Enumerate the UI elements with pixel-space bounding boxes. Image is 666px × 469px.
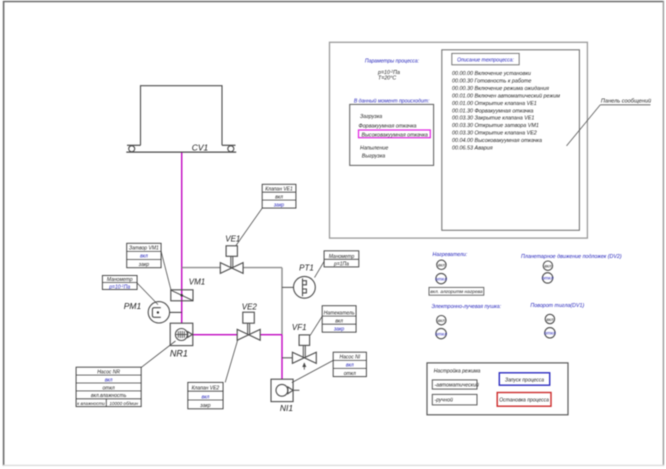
svg-text:Выгрузка: Выгрузка xyxy=(362,154,385,160)
svg-text:вкл: вкл xyxy=(105,377,113,383)
svg-text:Параметры процесса:: Параметры процесса: xyxy=(365,58,420,64)
svg-text:откл: откл xyxy=(544,332,556,337)
svg-text:Остановка процесса: Остановка процесса xyxy=(499,398,549,404)
svg-text:вкл: вкл xyxy=(202,394,210,400)
svg-text:В данный момент происходит:: В данный момент происходит: xyxy=(354,97,430,104)
svg-text:закр: закр xyxy=(199,403,210,409)
svg-text:-автоматический: -автоматический xyxy=(435,382,479,389)
svg-text:VE2: VE2 xyxy=(242,302,258,311)
svg-text:PT1: PT1 xyxy=(299,264,314,273)
svg-text:00.03.30 Открытие затвора VM1: 00.03.30 Открытие затвора VM1 xyxy=(452,123,539,129)
svg-text:00.00.30 Включение режима ожи: 00.00.30 Включение режима ожидания xyxy=(452,86,549,92)
svg-text:закр: закр xyxy=(138,262,149,268)
svg-text:Высоковакуумная откачка: Высоковакуумная откачка xyxy=(362,132,428,138)
svg-text:вкл.влажность: вкл.влажность xyxy=(91,393,127,399)
svg-text:вкл. алгоритм нагрева: вкл. алгоритм нагрева xyxy=(430,290,483,295)
svg-text:Нагреватели:: Нагреватели: xyxy=(433,252,468,258)
svg-text:VM1: VM1 xyxy=(189,278,205,287)
svg-text:откл: откл xyxy=(344,371,356,377)
svg-text:VF1: VF1 xyxy=(292,323,307,332)
svg-text:NI1: NI1 xyxy=(280,403,294,413)
svg-text:Насос NR: Насос NR xyxy=(97,370,120,376)
svg-text:Панель сообщений: Панель сообщений xyxy=(601,98,651,105)
svg-text:Запуск процесса: Запуск процесса xyxy=(505,377,544,383)
svg-text:T=20°C: T=20°C xyxy=(378,76,396,82)
svg-text:Насос NI: Насос NI xyxy=(340,355,361,361)
svg-text:вкл: вкл xyxy=(335,319,343,325)
svg-text:вкл: вкл xyxy=(438,263,446,268)
svg-text:Загрузка: Загрузка xyxy=(360,114,382,120)
svg-text:NR1: NR1 xyxy=(170,349,188,359)
svg-text:Настройка режима: Настройка режима xyxy=(434,368,481,375)
svg-text:Описание техпроцесса:: Описание техпроцесса: xyxy=(457,58,514,64)
svg-text:к влажности: к влажности xyxy=(77,401,105,406)
svg-text:00.03.30 Закрытие клапана VE1: 00.03.30 Закрытие клапана VE1 xyxy=(452,116,534,122)
svg-text:Манометр: Манометр xyxy=(107,277,133,283)
svg-text:p=10-2Па: p=10-2Па xyxy=(108,284,130,290)
svg-text:откл: откл xyxy=(435,332,447,337)
svg-text:вкл: вкл xyxy=(275,195,283,201)
svg-text:10000 об/мин: 10000 об/мин xyxy=(109,401,138,406)
svg-text:Клапан VE1: Клапан VE1 xyxy=(265,187,293,193)
svg-text:Электронно-лучевая пушка:: Электронно-лучевая пушка: xyxy=(432,304,502,310)
svg-text:закр: закр xyxy=(333,327,344,333)
svg-text:00.01.00 Включен автоматическ: 00.01.00 Включен автоматический режим xyxy=(452,92,560,99)
svg-text:00.00.30 Готовность к работе: 00.00.30 Готовность к работе xyxy=(452,79,531,85)
svg-text:Натекатель: Натекатель xyxy=(324,310,355,316)
svg-text:вкл: вкл xyxy=(140,254,148,260)
svg-text:откл: откл xyxy=(435,277,447,282)
svg-text:Напыление: Напыление xyxy=(360,145,388,151)
svg-text:Затвор VM1: Затвор VM1 xyxy=(129,246,159,252)
svg-text:00.03.30 Открытие клапана VE2: 00.03.30 Открытие клапана VE2 xyxy=(452,131,537,137)
svg-text:p=1Па: p=1Па xyxy=(333,262,349,268)
svg-text:-ручной: -ручной xyxy=(435,397,453,404)
svg-text:00.01.30 Форвакуумная откачка: 00.01.30 Форвакуумная откачка xyxy=(452,108,533,114)
svg-text:вкл: вкл xyxy=(346,363,354,369)
svg-text:Форвакуумная откачка: Форвакуумная откачка xyxy=(359,123,417,129)
svg-text:00.01.00 Открытие клапана VE1: 00.01.00 Открытие клапана VE1 xyxy=(452,101,537,107)
svg-text:Поворот тигла(DV1): Поворот тигла(DV1) xyxy=(530,303,584,309)
svg-text:закр: закр xyxy=(273,202,284,208)
svg-text:вкл: вкл xyxy=(546,317,554,322)
svg-text:00.00.00 Включение установки: 00.00.00 Включение установки xyxy=(452,71,531,77)
svg-text:вкл: вкл xyxy=(438,318,446,323)
svg-text:Клапан VE2: Клапан VE2 xyxy=(192,386,220,392)
svg-text:PM1: PM1 xyxy=(124,301,142,311)
svg-text:вкл: вкл xyxy=(544,264,552,269)
svg-text:00.06.53 Авария: 00.06.53 Авария xyxy=(452,146,493,152)
svg-text:откл: откл xyxy=(103,385,115,391)
svg-text:00.04.00 Высоковакуумная отка: 00.04.00 Высоковакуумная откачка xyxy=(452,138,542,144)
svg-text:Планетарное движение подложек: Планетарное движение подложек (DV2) xyxy=(521,254,622,260)
svg-text:откл: откл xyxy=(542,277,554,282)
svg-text:Манометр: Манометр xyxy=(329,254,355,260)
svg-text:CV1: CV1 xyxy=(192,142,209,152)
